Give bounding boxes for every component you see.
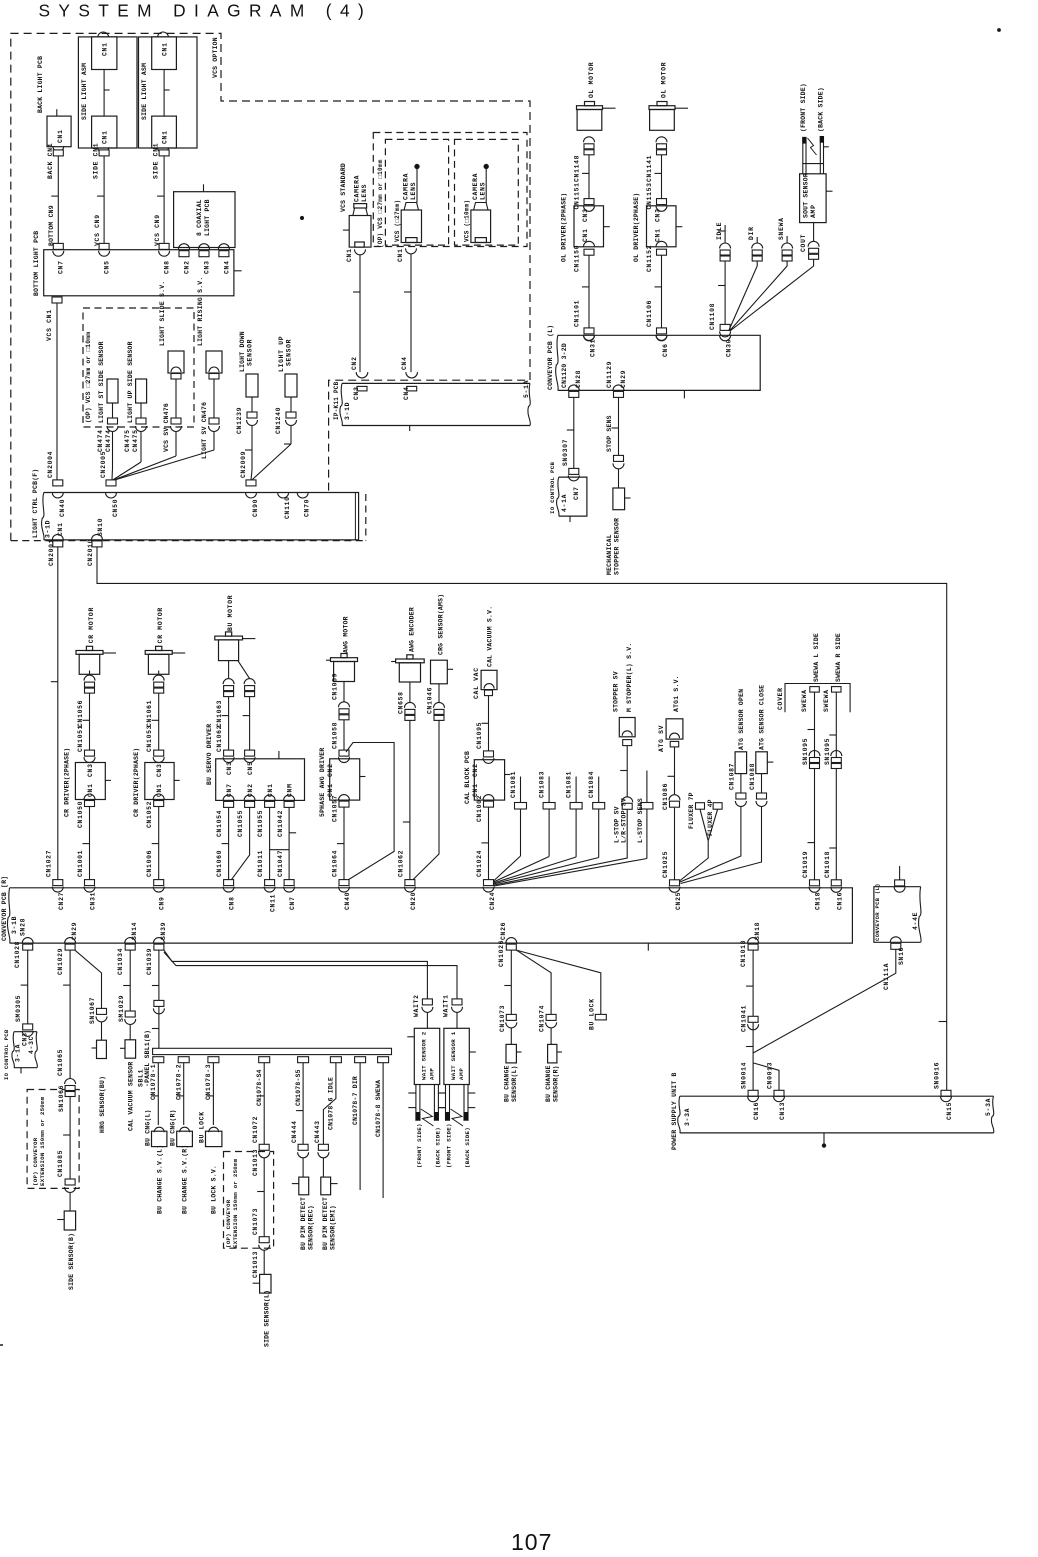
wire to BU PIM EMI <box>322 1158 324 1177</box>
stub connector CN1078-S4 <box>259 1057 270 1063</box>
sensor ATG SENSOR OPEN <box>735 752 747 774</box>
svg-text:SENSOR: SENSOR <box>247 339 254 366</box>
sensor LIGHT ST SIDE SENSOR CN474 <box>107 379 118 403</box>
wire atg open to CN1025 <box>680 807 741 883</box>
svg-text:BU PIM DETECT: BU PIM DETECT <box>300 1197 307 1250</box>
svg-text:(OP) CONVEYOR: (OP) CONVEYOR <box>225 1199 232 1248</box>
wire to bus <box>343 807 345 880</box>
wire side light 1 to bottom light pcb <box>103 156 105 244</box>
connector CN1011 / CN11 <box>265 880 275 886</box>
wire SOUT amp to COUT <box>813 223 815 242</box>
connector CN1108 / CN30 <box>720 324 730 330</box>
svg-text:IDLE: IDLE <box>716 222 723 240</box>
svg-text:CN4: CN4 <box>401 356 408 370</box>
svg-text:CN1: CN1 <box>57 129 64 143</box>
sensor HRG SENSOR(BU) <box>97 1040 107 1058</box>
svg-text:SN1095: SN1095 <box>824 738 831 765</box>
connector CN1153 <box>657 199 667 205</box>
wire motor to driver <box>661 155 663 199</box>
svg-text:SN0016: SN0016 <box>934 1062 941 1089</box>
svg-text:CN1: CN1 <box>655 228 662 242</box>
svg-text:CN31: CN31 <box>590 339 597 357</box>
svg-text:CN1239: CN1239 <box>236 407 243 434</box>
connector CN1050 <box>84 794 95 799</box>
svg-text:SIDE LIGHT ASM: SIDE LIGHT ASM <box>141 63 148 120</box>
connector SWEWA L SIDE <box>810 687 820 693</box>
connector CN1025 / CN25 <box>670 880 680 886</box>
wire CN28 to IO CONTROL PCB <box>573 397 575 468</box>
connector CN28 / CN1120 <box>568 385 579 391</box>
wire fan3 <box>494 857 577 883</box>
svg-text:BU SERVO DRIVER: BU SERVO DRIVER <box>206 724 213 785</box>
svg-text:4-1A: 4-1A <box>561 494 568 512</box>
svg-text:DIR: DIR <box>748 226 755 240</box>
svg-text:CN1078-3: CN1078-3 <box>205 1064 212 1100</box>
svg-text:ATG1 S.V.: ATG1 S.V. <box>673 675 680 712</box>
sensor CRG SENSOR(AMS) <box>431 660 448 684</box>
svg-text:SIDE LIGHT ASM: SIDE LIGHT ASM <box>81 63 88 120</box>
svg-text:SN10: SN10 <box>97 518 104 536</box>
svg-text:CN3: CN3 <box>204 260 211 274</box>
connector VCS CN1 <box>52 297 62 303</box>
svg-text:CN1027: CN1027 <box>46 850 53 877</box>
svg-text:CR MOTOR: CR MOTOR <box>157 607 164 643</box>
svg-text:CN1001: CN1001 <box>77 850 84 877</box>
svg-text:MECHANICAL: MECHANICAL <box>606 534 613 575</box>
box BACK LIGHT PCB <box>47 116 71 147</box>
svg-text:SN14: SN14 <box>131 922 138 940</box>
connector CN1054 <box>223 795 234 801</box>
svg-text:CN11: CN11 <box>270 894 277 912</box>
connector CN1073/CN1013 lower <box>259 1237 269 1243</box>
connector DIR <box>756 237 758 243</box>
wire to BU PIM REC <box>302 1158 304 1177</box>
connector CN1086 <box>669 795 680 800</box>
crossbar <box>270 849 290 851</box>
wire inside extension box <box>69 1097 71 1180</box>
svg-text:CN1083: CN1083 <box>539 771 546 798</box>
svg-text:CN1011: CN1011 <box>257 850 264 877</box>
wire CN26 chain 3 BU LOCK <box>516 950 601 1014</box>
wire IDLE to CN30 <box>724 261 726 324</box>
svg-text:SIDE SENSOR(B): SIDE SENSOR(B) <box>68 1233 75 1290</box>
svg-text:CN2001: CN2001 <box>48 539 55 566</box>
svg-text:CN1: CN1 <box>162 130 169 144</box>
connector CN1151 <box>584 199 594 205</box>
svg-text:VCS (□10mm): VCS (□10mm) <box>464 200 471 242</box>
wire fluxer to CN1025 <box>680 841 709 881</box>
stub connector CN1078-1 <box>153 1057 164 1063</box>
svg-text:CN18: CN18 <box>815 892 822 910</box>
connector CN2 coax <box>179 244 190 249</box>
svg-text:SENSOR(R): SENSOR(R) <box>553 1065 560 1102</box>
wires BU to servo driver <box>228 697 230 751</box>
svg-text:CN90: CN90 <box>252 499 259 517</box>
svg-text:CN1042: CN1042 <box>277 810 284 837</box>
wire vcs cn1 to light ctrl <box>56 303 58 480</box>
svg-text:CAMERA: CAMERA <box>472 173 479 200</box>
valve STOPPER SV / M STOPPER(L) S.V. <box>619 718 635 737</box>
svg-text:CN1078-2: CN1078-2 <box>176 1064 183 1100</box>
camera VCS 10mm <box>471 210 491 243</box>
connector CN6 conveyor L <box>656 335 667 341</box>
svg-text:CN3: CN3 <box>226 761 233 775</box>
svg-text:3-1D: 3-1D <box>344 402 351 420</box>
connector SM0305 <box>23 1024 33 1030</box>
connector CN658 <box>409 682 411 702</box>
svg-text:LENS: LENS <box>480 182 487 200</box>
connector SN1066 <box>65 1079 76 1085</box>
motor AWG MOTOR <box>341 654 347 658</box>
wire driver to conveyor pcb L <box>588 255 590 328</box>
svg-text:CN443: CN443 <box>314 1120 321 1143</box>
stub connector FLUXER 4P <box>713 803 722 810</box>
svg-text:CN7: CN7 <box>573 486 580 500</box>
connector CN1074 bu change R <box>546 1014 556 1020</box>
svg-text:VCS CN1: VCS CN1 <box>46 309 53 341</box>
svg-text:EXTENSION 150mm or 250mm: EXTENSION 150mm or 250mm <box>39 1096 46 1186</box>
svg-text:107: 107 <box>511 1529 552 1555</box>
svg-text:CN2: CN2 <box>472 763 479 777</box>
connector CN26 bottom / CN1026 <box>506 938 517 943</box>
svg-text:SN39: SN39 <box>160 922 167 940</box>
sensor SIDE SENSOR(B) <box>64 1211 75 1230</box>
stub connector CN1078-2 <box>178 1057 189 1063</box>
svg-text:CN1078-S4: CN1078-S4 <box>256 1069 263 1106</box>
svg-text:SN16: SN16 <box>898 947 905 965</box>
svg-text:CN474: CN474 <box>97 429 104 452</box>
svg-text:LIGHT ST SIDE SENSOR: LIGHT ST SIDE SENSOR <box>98 341 105 423</box>
connector CN29 / CN1129 <box>613 385 624 391</box>
svg-text:CN475: CN475 <box>124 429 131 452</box>
svg-text:OL DRIVER(2PHASE): OL DRIVER(2PHASE) <box>561 193 568 262</box>
svg-text:CN1152: CN1152 <box>646 245 653 272</box>
wire DIR stub <box>359 1063 361 1190</box>
wire CN28 to IO CONTROL PCB left <box>27 950 29 1024</box>
connector SN16 bottom <box>890 937 901 943</box>
svg-text:VCS (□27mm): VCS (□27mm) <box>394 200 401 242</box>
wire camera1 to IP-K11 CN2 <box>359 255 361 372</box>
svg-text:ATG SENSOR OPEN: ATG SENSOR OPEN <box>738 689 745 750</box>
connector CN1152 <box>656 241 667 246</box>
svg-text:WAIT SENSOR 2: WAIT SENSOR 2 <box>420 1031 427 1080</box>
svg-text:CN1018: CN1018 <box>740 940 747 967</box>
svg-text:COVER: COVER <box>777 687 784 710</box>
stub connector CN1081 <box>575 777 577 803</box>
svg-text:CN2: CN2 <box>351 356 358 370</box>
wire IDLE diagonal to CN443 <box>323 1063 336 1145</box>
connector CN1055 pin CN1 <box>264 795 275 801</box>
wire encoder to bus <box>409 720 411 879</box>
connector COUT <box>808 241 819 246</box>
svg-text:CN1129: CN1129 <box>606 361 613 388</box>
svg-text:CN1057: CN1057 <box>332 795 339 822</box>
wire cal valve down <box>488 696 490 751</box>
svg-text:AWG MOTOR: AWG MOTOR <box>343 616 350 653</box>
wire CN29 diagonal to HRG sensor <box>75 950 102 1008</box>
box BOTTOM LIGHT PCB <box>44 250 234 296</box>
wire to vacuum sensor <box>129 1025 131 1040</box>
svg-text:CN70: CN70 <box>304 499 311 517</box>
connector CN1106 <box>657 328 667 334</box>
connector CN1095 <box>484 751 494 757</box>
connector CN1058 <box>339 750 349 756</box>
camera VCS 27mm <box>401 210 421 243</box>
svg-text:CN2: CN2 <box>184 260 191 274</box>
svg-text:CN1078-7 DIR: CN1078-7 DIR <box>352 1076 359 1125</box>
sensor SIDE SENSOR(L) <box>260 1274 271 1293</box>
svg-text:CONVEYOR PCB [R]: CONVEYOR PCB [R] <box>1 876 8 941</box>
svg-text:CN2004: CN2004 <box>47 451 54 478</box>
svg-text:COUT: COUT <box>800 234 807 252</box>
mark left edge <box>0 1344 3 1346</box>
wire swewa L down <box>814 692 816 880</box>
svg-text:CN25: CN25 <box>675 892 682 910</box>
sensor WAIT SENSOR 2 AMP <box>414 1028 439 1084</box>
connector CN1063 left <box>223 679 234 684</box>
svg-text:SIDE CN1: SIDE CN1 <box>153 143 160 179</box>
svg-text:CN8: CN8 <box>164 260 171 274</box>
svg-text:CN1046: CN1046 <box>427 687 434 714</box>
svg-text:8 COAXIAL: 8 COAXIAL <box>196 199 203 236</box>
valve BU CHANGE S.V.(R) <box>177 1131 193 1146</box>
svg-text:CN40: CN40 <box>59 499 66 517</box>
svg-text:SWEWA: SWEWA <box>801 689 808 712</box>
wire to BU LOCK valve <box>212 1063 214 1125</box>
svg-text:CN1061: CN1061 <box>146 700 153 727</box>
connector CN1085 <box>65 1179 75 1185</box>
sensor LIGHT DOWN SENSOR <box>246 374 258 397</box>
connector CN2000 / CN90 <box>246 480 256 486</box>
svg-text:CN1053: CN1053 <box>146 725 153 752</box>
dot top right <box>998 29 1001 32</box>
valve LIGHT SLIDE S.V. <box>168 351 184 373</box>
svg-text:CAMERA: CAMERA <box>403 173 410 200</box>
svg-text:5-1A: 5-1A <box>523 380 530 398</box>
connector CN1053 <box>154 750 164 756</box>
connector CN1 camera2 <box>406 248 417 254</box>
svg-text:CN1055: CN1055 <box>237 810 244 837</box>
svg-text:CN658: CN658 <box>398 691 405 714</box>
svg-text:LIGHT RISING S.V.: LIGHT RISING S.V. <box>197 277 204 346</box>
svg-text:M STOPPER(L) S.V.: M STOPPER(L) S.V. <box>626 643 633 712</box>
wire CN1058 side route <box>346 743 394 880</box>
svg-text:CR DRIVER(2PHASE): CR DRIVER(2PHASE) <box>133 748 140 817</box>
svg-text:CN29: CN29 <box>620 370 627 388</box>
svg-text:ATG SV: ATG SV <box>658 725 665 752</box>
wire to driver <box>158 693 160 750</box>
wire COUT to CN30 <box>730 259 814 331</box>
valve LIGHT RISING S.V. <box>206 351 222 373</box>
svg-text:CN1081: CN1081 <box>566 771 573 798</box>
svg-text:SWEWA L SIDE: SWEWA L SIDE <box>813 633 820 682</box>
stub connector CN1078-8 SWEWA <box>378 1057 389 1063</box>
connector STOP SENS <box>614 455 624 461</box>
svg-text:CN1056: CN1056 <box>77 700 84 727</box>
connector CN1046 <box>438 684 440 703</box>
svg-text:SENSOR(REC): SENSOR(REC) <box>308 1205 315 1250</box>
svg-text:CN4: CN4 <box>224 260 231 274</box>
wire fan1 <box>494 856 521 881</box>
svg-text:SN28: SN28 <box>20 918 27 936</box>
svg-text:LENS: LENS <box>410 182 417 200</box>
wire to BU CNG L valve <box>157 1063 159 1125</box>
wire to driver <box>89 693 91 750</box>
svg-text:CN1088: CN1088 <box>749 763 756 790</box>
svg-text:CN1240: CN1240 <box>275 407 282 434</box>
connector CN1018 / CN16 <box>831 880 841 886</box>
wire to side sensor L <box>263 1250 265 1274</box>
svg-text:VCS CN9: VCS CN9 <box>94 214 101 246</box>
wire fan6 <box>494 859 647 887</box>
svg-text:CN1150: CN1150 <box>574 245 581 272</box>
connector SWEWA R SIDE <box>832 687 842 693</box>
wire CN7 to bus CN1060 <box>228 807 230 879</box>
svg-text:CONVEYOR PCB (L): CONVEYOR PCB (L) <box>547 325 554 390</box>
svg-text:WAIT2: WAIT2 <box>413 994 420 1017</box>
svg-text:AMP: AMP <box>458 1067 465 1080</box>
svg-text:CN3: CN3 <box>353 386 360 400</box>
svg-text:CN1059: CN1059 <box>332 673 339 700</box>
svg-text:CONVEYOR PCB (L): CONVEYOR PCB (L) <box>874 883 881 941</box>
connector CN1088 <box>757 793 767 799</box>
connector CN30 conveyor L <box>720 335 731 341</box>
connector CN1042 pin CNM <box>284 795 295 801</box>
dashed box cameras outer <box>373 133 527 247</box>
connector CN31 conveyor L <box>584 335 595 341</box>
stub connector CN1001 <box>520 777 522 803</box>
connector CN1064 / CN40 <box>339 880 349 886</box>
svg-text:3-1B: 3-1B <box>11 916 18 934</box>
svg-text:CN1064: CN1064 <box>332 850 339 877</box>
sensor LIGHT UP SIDE SENSOR CN475 <box>136 379 147 403</box>
svg-text:IP-K11 PCB: IP-K11 PCB <box>333 381 340 420</box>
wire S4 inside extension <box>263 1158 265 1237</box>
svg-text:(OP) VCS □27mm or □10mm: (OP) VCS □27mm or □10mm <box>85 332 92 423</box>
connector SIDE CN1 asm2 <box>159 150 169 156</box>
connector CN1051 <box>85 750 95 756</box>
connector CN2005 / CN50 <box>106 480 116 486</box>
connector CN1 / CN2001 <box>52 534 63 540</box>
op-amp 5PHASE AWG DRIVER <box>330 759 360 800</box>
sensor ATG SENSOR CLOSE <box>756 752 768 774</box>
sensor BU CHANGE SENSOR(L) <box>506 1044 516 1063</box>
wire stopper sv down <box>626 746 628 797</box>
svg-text:CN1013: CN1013 <box>252 1149 259 1176</box>
sensor BU CHANGE SENSOR(R) <box>548 1044 557 1063</box>
svg-text:CR DRIVER(2PHASE): CR DRIVER(2PHASE) <box>63 748 70 817</box>
wire swewa R down <box>835 692 837 880</box>
dashed box OP conveyor extension left <box>27 1090 79 1189</box>
svg-text:CN1078-S5: CN1078-S5 <box>295 1069 302 1106</box>
wire cal to bus <box>488 807 490 880</box>
svg-text:SN0014: SN0014 <box>741 1062 748 1089</box>
stub connector CN1084 <box>598 777 600 803</box>
svg-text:CN2005: CN2005 <box>100 451 107 478</box>
svg-text:CN110: CN110 <box>284 496 291 519</box>
connector CN1041 <box>748 1016 758 1022</box>
dashed box OP conveyor extension mid <box>224 1152 274 1249</box>
svg-text:CN26: CN26 <box>500 922 507 940</box>
connector CN1141 <box>656 137 667 143</box>
svg-text:CN29: CN29 <box>71 922 78 940</box>
connector CN1056 <box>84 675 95 681</box>
svg-text:CN1072: CN1072 <box>252 1116 259 1143</box>
connector CN1062 left <box>224 750 234 756</box>
svg-text:(BACK SIDE): (BACK SIDE) <box>818 87 825 132</box>
svg-text:CR MOTOR: CR MOTOR <box>88 607 95 643</box>
box IO CONTROL PCB (left) <box>14 1032 37 1068</box>
svg-text:CN1: CN1 <box>102 130 109 144</box>
svg-text:SENSOR(L): SENSOR(L) <box>511 1065 518 1102</box>
connector CN1024 / CN24 <box>484 880 494 886</box>
svg-text:CN5: CN5 <box>104 260 111 274</box>
svg-text:CN1013: CN1013 <box>252 1251 259 1278</box>
svg-text:CN1087: CN1087 <box>729 763 736 790</box>
svg-text:CN1120 3-2D: CN1120 3-2D <box>561 343 568 388</box>
connector CN29 bottom / CN1029 <box>65 938 76 943</box>
svg-text:CAMERA: CAMERA <box>354 175 361 202</box>
stub connector CN1003 <box>548 777 550 803</box>
box PANEL SBL1 thin <box>153 1048 392 1054</box>
svg-text:CN475: CN475 <box>132 429 139 452</box>
wire AWG to driver <box>343 720 345 750</box>
svg-text:STOPPER SV: STOPPER SV <box>613 671 620 712</box>
svg-text:LIGHT CTRL PCB(F): LIGHT CTRL PCB(F) <box>32 469 39 538</box>
box LIGHT CTRL PCB(F) <box>44 493 359 540</box>
svg-text:OL MOTOR: OL MOTOR <box>588 62 595 98</box>
svg-text:CN1006: CN1006 <box>146 850 153 877</box>
dashed box camera 27mm <box>385 139 448 245</box>
op-amp OL DRIVER(2PHASE) box 2 <box>647 206 677 247</box>
wire CRG to bus diagonal <box>413 720 439 879</box>
svg-text:CN1: CN1 <box>397 248 404 262</box>
connector SM1029 <box>125 1011 135 1017</box>
svg-text:CN16: CN16 <box>753 1102 760 1120</box>
svg-text:(FRONT SIDE): (FRONT SIDE) <box>800 83 807 132</box>
svg-text:VCS STANDARD: VCS STANDARD <box>340 163 347 212</box>
svg-text:LIGHT DOWN: LIGHT DOWN <box>239 331 246 372</box>
svg-text:L-STOP SV: L-STOP SV <box>614 806 621 843</box>
connector CN1055 pin CN2 <box>244 795 255 801</box>
svg-text:CN4: CN4 <box>403 386 410 400</box>
svg-text:IO CONTROL PCB: IO CONTROL PCB <box>549 462 556 514</box>
svg-text:CN1106: CN1106 <box>646 300 653 327</box>
motor OL MOTOR 2 <box>657 102 667 106</box>
svg-text:CN1: CN1 <box>57 522 64 536</box>
valve BU LOCK S.V. <box>206 1131 222 1146</box>
svg-text:L/R-STOP SV: L/R-STOP SV <box>621 798 628 843</box>
wire CN29 to stop sensor <box>618 397 620 455</box>
tick with arrow below power box <box>823 1133 825 1144</box>
wire CN39 fan right to WAIT lines <box>164 950 428 999</box>
svg-text:CN1062: CN1062 <box>398 850 405 877</box>
svg-text:CN40: CN40 <box>344 892 351 910</box>
box IP-K11 PCB <box>342 383 530 425</box>
svg-text:POWER SUPPLY UNIT B: POWER SUPPLY UNIT B <box>671 1072 678 1150</box>
connector CN1060 / CN8 <box>224 880 234 886</box>
svg-text:(OP) CONVEYOR: (OP) CONVEYOR <box>32 1137 39 1186</box>
svg-text:CN474: CN474 <box>105 429 112 452</box>
svg-text:OL DRIVER(2PHASE): OL DRIVER(2PHASE) <box>633 193 640 262</box>
svg-text:BOTTOM CN9: BOTTOM CN9 <box>48 205 55 246</box>
sensor WAIT SENSOR 1 AMP <box>444 1028 469 1084</box>
bracket COVER <box>785 684 850 713</box>
svg-text:BU CHANGE: BU CHANGE <box>545 1065 552 1102</box>
svg-text:5PHASE AWG DRIVER: 5PHASE AWG DRIVER <box>319 748 326 817</box>
connector CN14 bottom / CN1034 <box>125 938 136 943</box>
svg-text:CN1086: CN1086 <box>662 783 669 810</box>
